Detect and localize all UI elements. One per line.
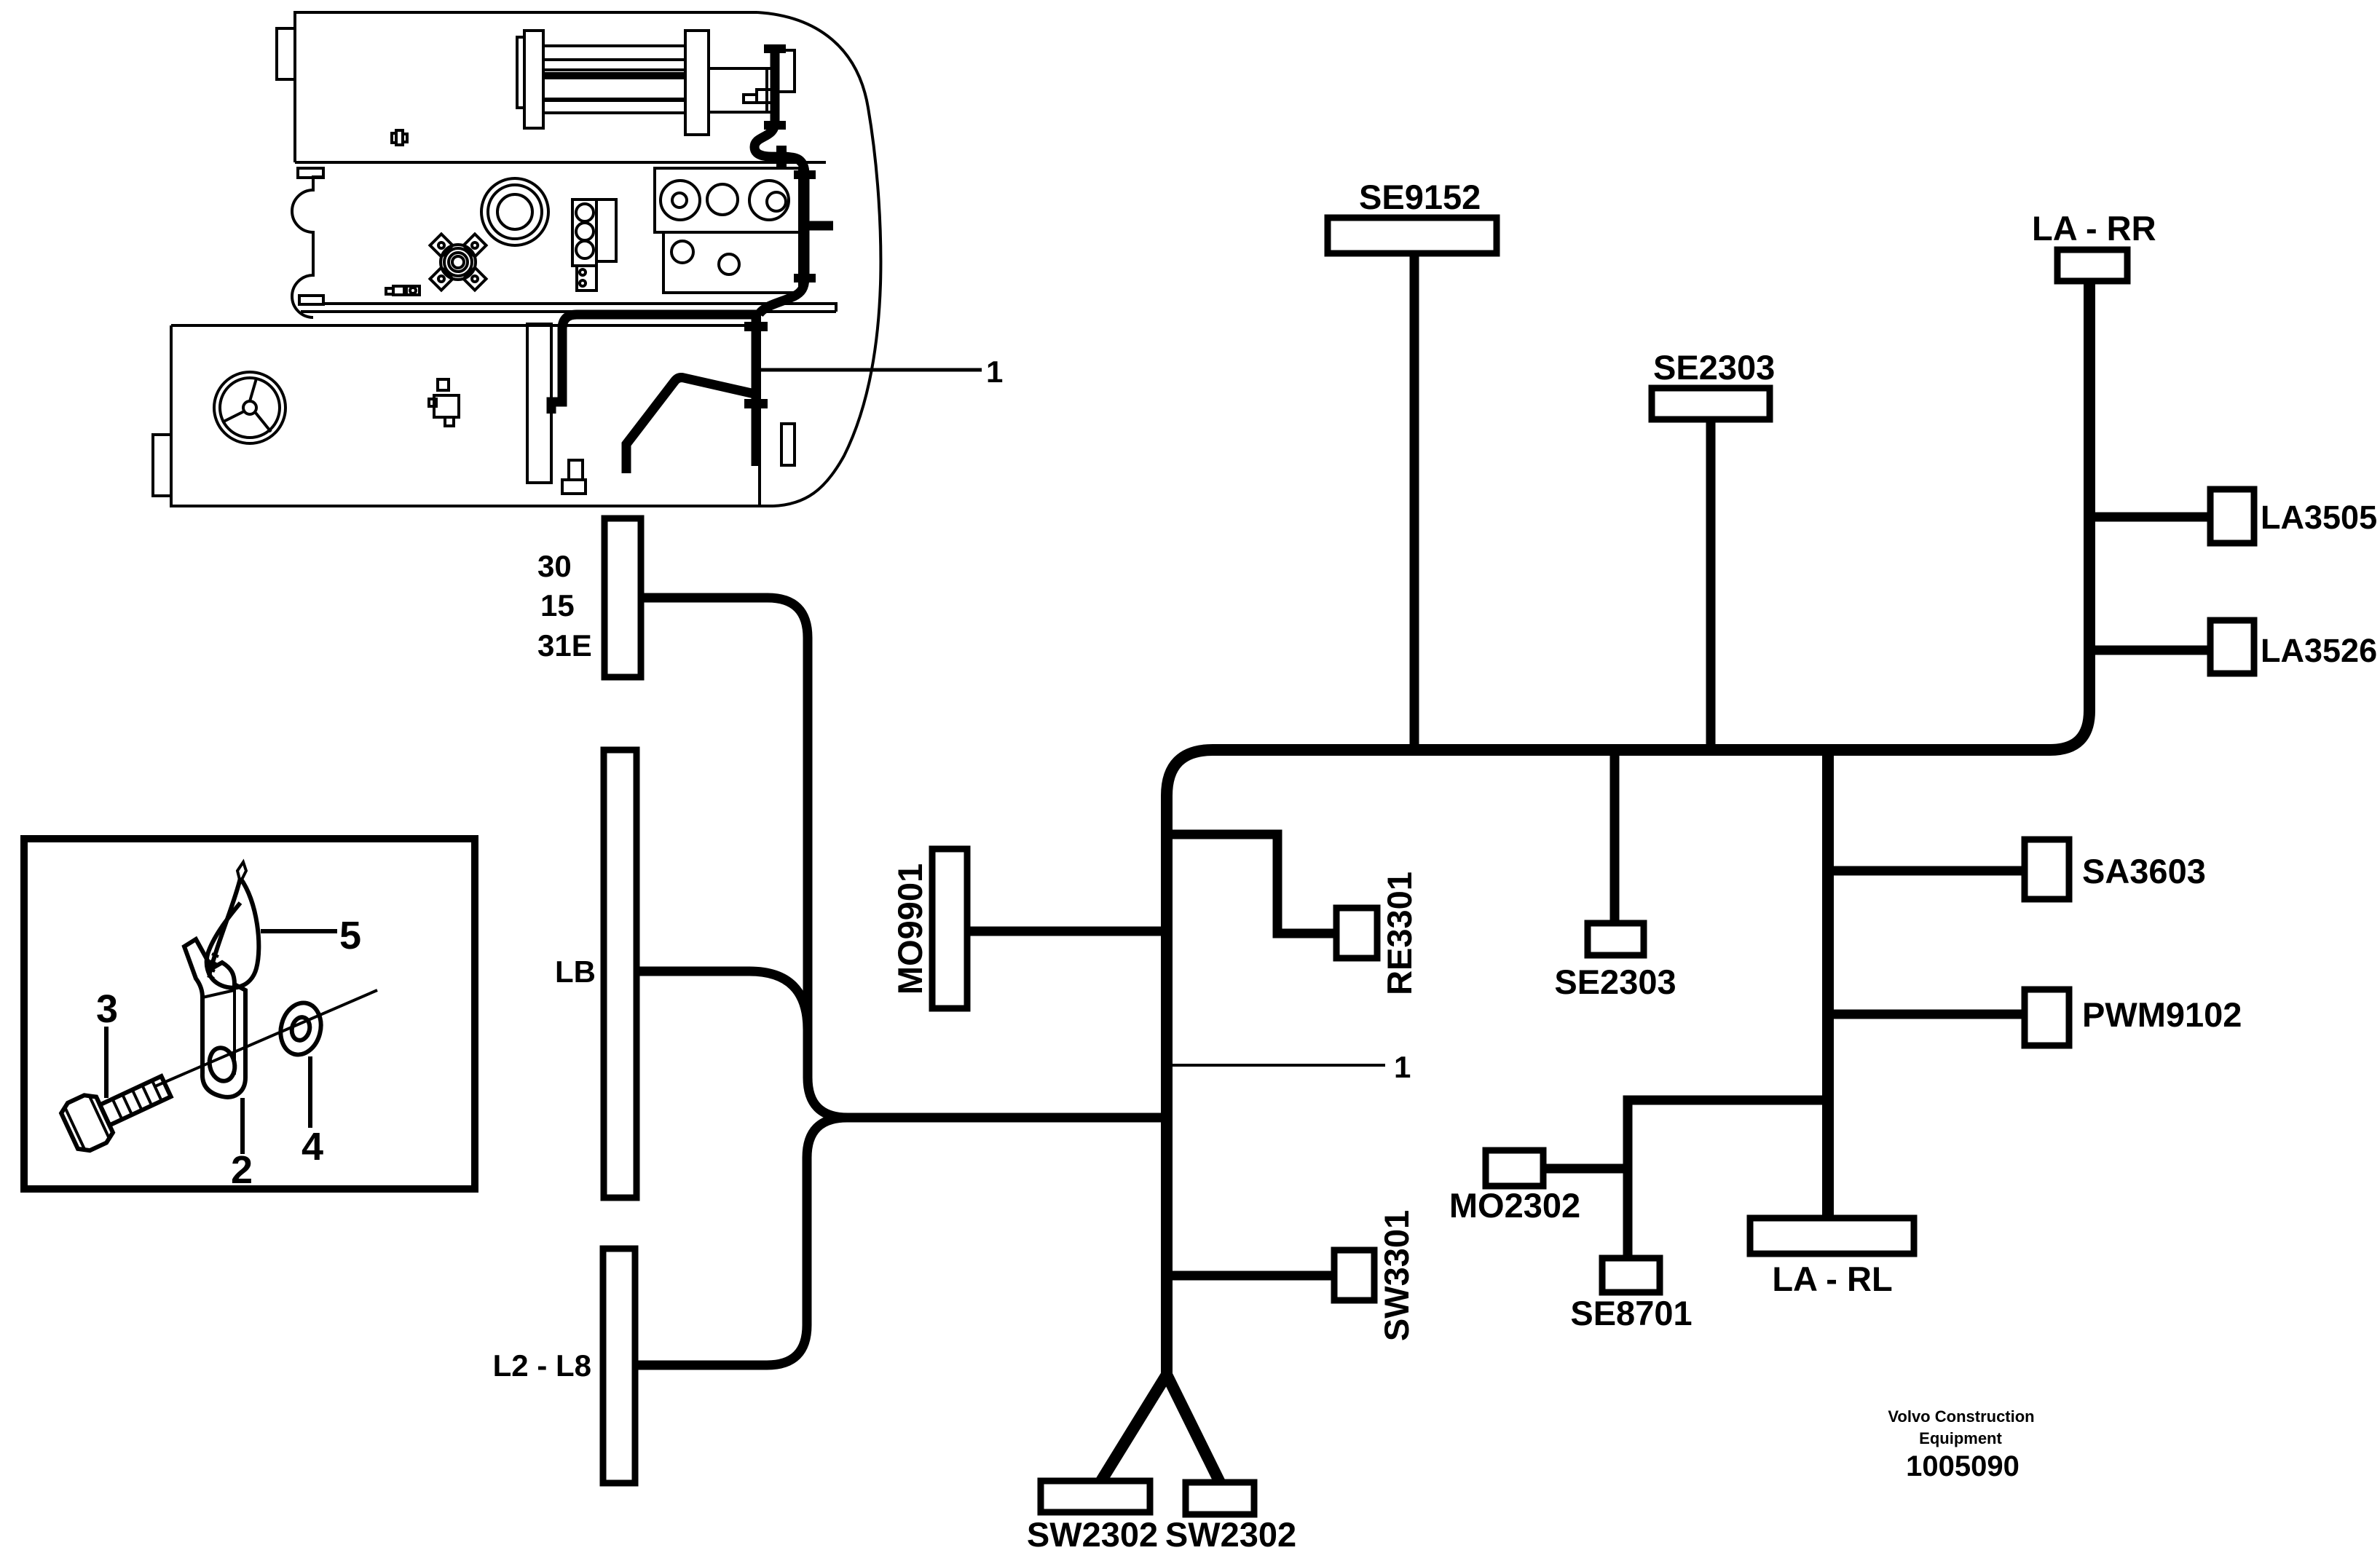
steering wheel (214, 372, 285, 443)
connector SE9152 (1328, 178, 1497, 750)
cable stub right of control box (805, 221, 833, 231)
main trunk and bus (1167, 281, 2089, 1375)
cab outline (171, 309, 773, 506)
connector PWM9102 (1828, 989, 2242, 1046)
svg-text:SE2303: SE2303 (1653, 348, 1775, 387)
svg-text:LB: LB (555, 955, 596, 989)
svg-text:PWM9102: PWM9102 (2082, 995, 2242, 1034)
bolt item 3 (58, 1062, 177, 1155)
hydraulic cylinder tie rods (543, 46, 685, 113)
connector bar 30/15/31E (537, 518, 641, 677)
machine leader line 1 (760, 355, 1003, 389)
cab panel (527, 324, 551, 483)
machine illustration group (153, 12, 1003, 506)
lamp LA3505 (2089, 489, 2377, 543)
connector SE2303 top (1652, 348, 1775, 750)
wire from connector 30/15/31E (641, 598, 1167, 1118)
indicator light cluster (572, 199, 616, 291)
svg-text:SE9152: SE9152 (1359, 178, 1481, 216)
bracket item 2 (184, 939, 245, 1097)
svg-text:SW2302: SW2302 (1027, 1515, 1158, 1554)
svg-text:SE2303: SE2303 (1554, 963, 1676, 1001)
connector bar LB (555, 750, 637, 1198)
machine engine-deck top outline (277, 12, 757, 162)
small connectors on band (386, 286, 419, 295)
connector SW3301 (1167, 1210, 1416, 1341)
cab left hinge (153, 435, 171, 496)
hydraulic cylinder barrel (543, 70, 685, 99)
hydraulic cylinder left flange (524, 31, 543, 128)
connector RE3301 (1167, 834, 1419, 995)
shelf lines (301, 304, 836, 312)
connector LA-RR (2032, 209, 2156, 281)
svg-text:MO9901: MO9901 (891, 864, 929, 995)
label 3 (96, 987, 118, 1098)
left tab upper (298, 168, 323, 178)
wiring harness diagram (493, 178, 2377, 1554)
connector SW2302 right (1165, 1482, 1296, 1554)
branch to MO2302 and SE8701 (1628, 1100, 1828, 1258)
inset detail box (24, 839, 475, 1192)
label 4 (302, 1056, 323, 1169)
connector SW2302 left (1027, 1481, 1158, 1554)
connector SE8701 (1570, 1258, 1692, 1332)
clamp ticks (744, 44, 816, 408)
pedestal (562, 460, 586, 494)
diagram leader 1 (1167, 1050, 1411, 1084)
svg-text:LA3526: LA3526 (2261, 632, 2377, 669)
svg-text:3: 3 (96, 987, 118, 1031)
wire from connector LB (637, 971, 808, 1030)
deck bottom line (295, 161, 826, 164)
tiny bolt on deck (392, 130, 407, 145)
harness drop branch (752, 315, 761, 466)
left tab lower (299, 296, 323, 304)
connector SE2303 mid (1554, 750, 1676, 1001)
trunk to LA-RL (1822, 750, 1834, 1218)
svg-text:4: 4 (302, 1125, 323, 1169)
svg-text:Equipment: Equipment (1919, 1429, 2002, 1447)
washer item 4 (275, 999, 326, 1059)
connector MO2302 (1449, 1150, 1628, 1225)
svg-text:LA - RR: LA - RR (2032, 209, 2156, 248)
connector bar L2-L8 (493, 1249, 635, 1483)
svg-text:SW3301: SW3301 (1377, 1210, 1416, 1341)
svg-text:5: 5 (339, 914, 361, 957)
lamp LA3526 (2089, 620, 2377, 673)
cable tie item 5 (207, 862, 259, 988)
svg-text:LA3505: LA3505 (2261, 499, 2377, 536)
wire from connector L2-L8 (635, 1118, 847, 1365)
connector SA3603 (1828, 839, 2206, 899)
hydraulic cylinder right flange (685, 31, 709, 135)
lever cane (626, 378, 754, 473)
svg-text:Volvo Construction: Volvo Construction (1888, 1407, 2034, 1426)
mounting flange with diamonds (430, 234, 486, 290)
svg-text:1005090: 1005090 (1906, 1450, 2020, 1482)
svg-text:30: 30 (537, 549, 572, 583)
dashboard band scalloped left edge (292, 177, 323, 317)
cylinder rod end cap (778, 50, 795, 92)
small fitting near rod (744, 90, 772, 103)
svg-text:2: 2 (231, 1148, 253, 1192)
control box upper (655, 168, 800, 232)
svg-text:SA3603: SA3603 (2082, 852, 2206, 890)
harness cable on engine (754, 47, 805, 315)
label 2 (231, 1098, 253, 1192)
label 5 (261, 914, 361, 957)
svg-text:SW2302: SW2302 (1165, 1515, 1296, 1554)
lamp LA-RL (1750, 1218, 1914, 1298)
axis line (155, 990, 377, 1086)
cylinder rod (709, 68, 778, 112)
svg-text:SE8701: SE8701 (1570, 1294, 1692, 1332)
svg-text:1: 1 (1394, 1050, 1411, 1084)
control box lower (663, 232, 800, 293)
svg-text:LA - RL: LA - RL (1772, 1260, 1892, 1298)
svg-text:31E: 31E (537, 628, 592, 663)
hydraulic cylinder left plate (517, 37, 524, 108)
harness cable to cab (551, 315, 759, 414)
svg-text:1: 1 (986, 355, 1003, 389)
connector MO9901 (891, 849, 1167, 1008)
door handle (781, 424, 795, 465)
svg-text:RE3301: RE3301 (1380, 872, 1419, 995)
svg-text:L2 - L8: L2 - L8 (493, 1348, 591, 1383)
machine nose outline (757, 12, 880, 506)
svg-text:15: 15 (540, 588, 575, 623)
svg-text:MO2302: MO2302 (1449, 1186, 1580, 1225)
title block (1888, 1407, 2034, 1482)
dashboard gauge triple ring (481, 178, 548, 245)
steering column bracket (429, 379, 459, 426)
fork to SW2302 pair (1101, 1375, 1220, 1482)
